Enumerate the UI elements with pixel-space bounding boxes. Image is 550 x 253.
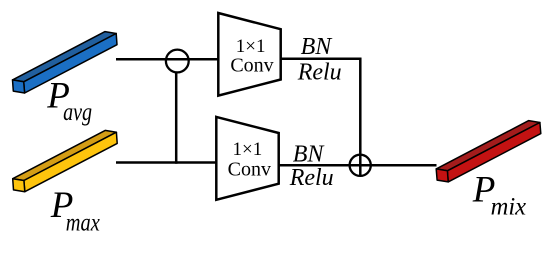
svg-text:1×1: 1×1 [233, 139, 263, 160]
label P_max [50, 185, 100, 237]
wire: P_max to bottom conv [116, 161, 216, 164]
wire: branch from P_max line up to subtract node [175, 72, 178, 164]
subtract node [166, 50, 189, 73]
svg-text:BN: BN [301, 34, 334, 60]
wire: P_avg to subtract node to top conv [116, 58, 218, 61]
svg-text:Conv: Conv [230, 55, 273, 77]
add node [350, 155, 371, 176]
P_mix tensor bar (red) [436, 121, 541, 182]
wire: top conv to corner (BN/Relu fraction bar) [281, 57, 362, 60]
P_avg tensor bar (blue) [13, 32, 118, 93]
P_max tensor bar (yellow) [13, 130, 118, 191]
conv block bottom (1x1 Conv) [216, 117, 278, 200]
svg-text:Relu: Relu [289, 165, 334, 191]
svg-text:mix: mix [491, 193, 526, 220]
svg-text:Relu: Relu [297, 60, 342, 86]
svg-text:avg: avg [63, 99, 92, 126]
wire: bottom conv to add node to P_mix (BN/Relu fraction bar) [279, 164, 437, 167]
label P_mix [472, 169, 526, 220]
svg-text:max: max [66, 210, 100, 237]
label P_avg [46, 76, 92, 126]
conv block top (1x1 Conv) [218, 13, 280, 96]
svg-text:Conv: Conv [228, 159, 271, 181]
svg-text:BN: BN [293, 141, 326, 167]
wire: vertical down from corner into add node [359, 58, 362, 176]
